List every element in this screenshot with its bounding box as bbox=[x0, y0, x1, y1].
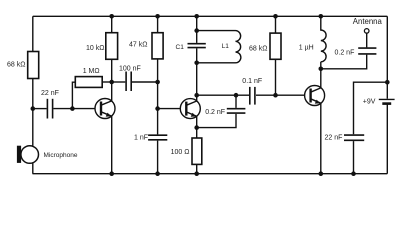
svg-text:22 nF: 22 nF bbox=[41, 90, 59, 97]
svg-text:0.2 nF: 0.2 nF bbox=[205, 109, 225, 116]
svg-text:L1: L1 bbox=[222, 43, 230, 50]
svg-text:C1: C1 bbox=[176, 44, 185, 51]
svg-text:100 Ω: 100 Ω bbox=[171, 149, 190, 156]
svg-text:0.1 nF: 0.1 nF bbox=[242, 78, 262, 85]
svg-text:1 nF: 1 nF bbox=[134, 135, 148, 142]
svg-text:68 kΩ: 68 kΩ bbox=[7, 61, 25, 68]
svg-text:Microphone: Microphone bbox=[44, 152, 78, 159]
svg-text:10 kΩ: 10 kΩ bbox=[86, 45, 104, 52]
svg-text:100 nF: 100 nF bbox=[119, 65, 141, 72]
svg-text:1 µH: 1 µH bbox=[299, 44, 314, 51]
svg-text:47 kΩ: 47 kΩ bbox=[129, 41, 147, 48]
svg-text:Antenna: Antenna bbox=[353, 17, 383, 26]
svg-text:68 kΩ: 68 kΩ bbox=[249, 46, 267, 53]
svg-text:1 MΩ: 1 MΩ bbox=[83, 68, 100, 75]
svg-text:+9V: +9V bbox=[363, 98, 376, 105]
svg-text:0.2 nF: 0.2 nF bbox=[335, 50, 355, 57]
svg-text:22 nF: 22 nF bbox=[325, 134, 343, 141]
